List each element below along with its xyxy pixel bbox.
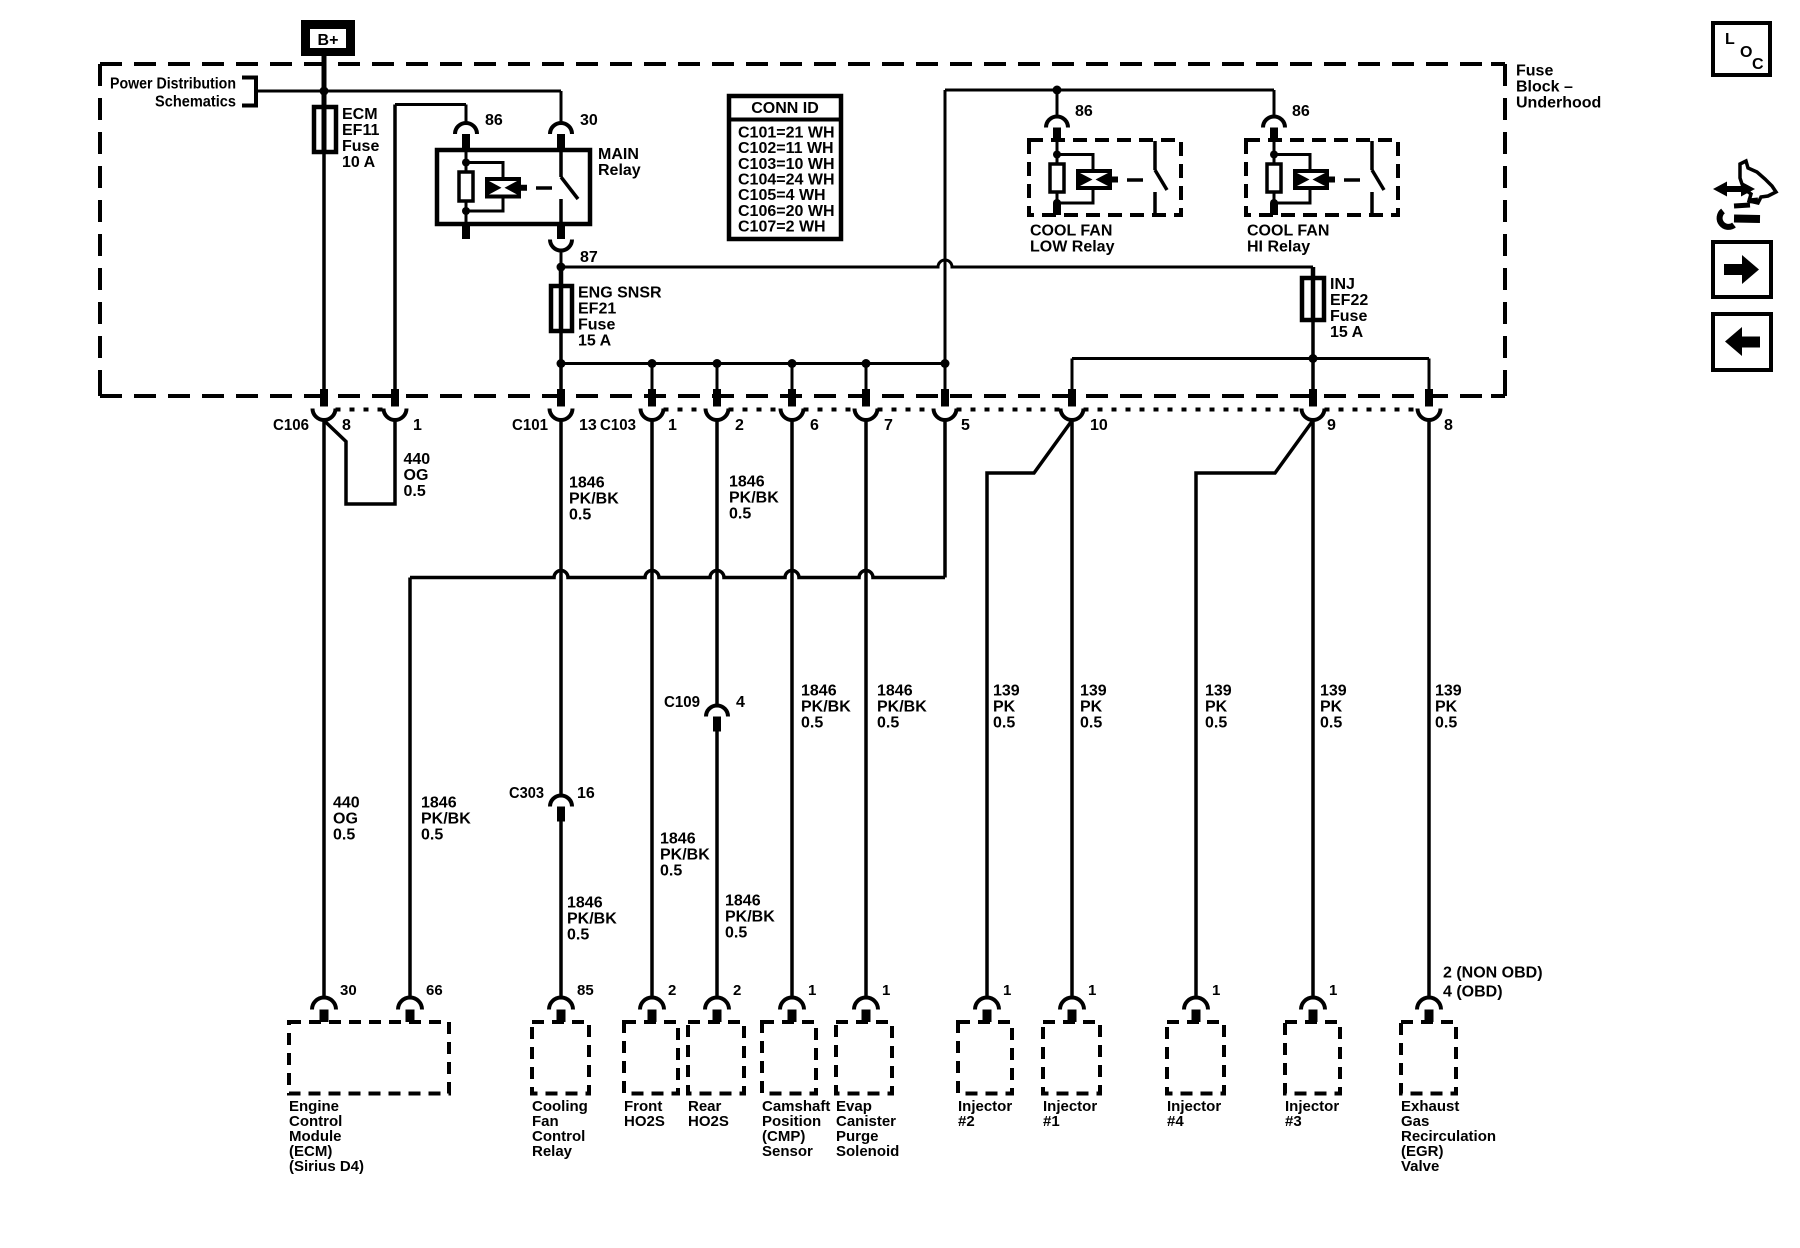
svg-text:8: 8 [1444,417,1453,434]
svg-text:C103: C103 [600,417,636,434]
svg-text:0.5: 0.5 [333,827,355,844]
svg-text:86: 86 [485,112,503,129]
svg-text:0.5: 0.5 [1080,715,1102,732]
svg-text:1: 1 [1212,982,1220,999]
svg-text:Valve: Valve [1401,1158,1439,1175]
svg-text:Fuse: Fuse [1516,63,1553,80]
svg-text:1: 1 [1088,982,1096,999]
svg-text:O: O [1740,44,1752,61]
svg-text:B+: B+ [318,32,339,49]
svg-text:15 A: 15 A [1330,324,1364,341]
svg-text:5: 5 [961,417,970,434]
svg-text:0.5: 0.5 [877,715,899,732]
svg-text:0.5: 0.5 [660,863,682,880]
svg-text:OG: OG [404,467,429,484]
svg-text:C303: C303 [509,785,544,802]
svg-text:1846: 1846 [725,893,761,910]
svg-text:2 (NON OBD): 2 (NON OBD) [1443,965,1543,982]
svg-text:Solenoid: Solenoid [836,1143,899,1160]
svg-text:1846: 1846 [660,831,696,848]
svg-text:C: C [1752,56,1764,73]
svg-text:PK/BK: PK/BK [729,490,779,507]
svg-text:HO2S: HO2S [624,1113,665,1130]
svg-text:4: 4 [736,694,745,711]
svg-text:139: 139 [1080,683,1107,700]
svg-text:C101: C101 [512,417,548,434]
svg-text:16: 16 [577,785,595,802]
svg-text:EF21: EF21 [578,301,616,318]
svg-text:(Sirius D4): (Sirius D4) [289,1158,364,1175]
svg-text:0.5: 0.5 [1435,715,1457,732]
svg-text:15 A: 15 A [578,333,612,350]
svg-text:30: 30 [340,982,357,999]
svg-text:0.5: 0.5 [569,507,591,524]
svg-text:LOW Relay: LOW Relay [1030,239,1115,256]
svg-text:Block –: Block – [1516,79,1573,96]
svg-text:C107=2 WH: C107=2 WH [738,219,826,236]
svg-text:COOL FAN: COOL FAN [1030,223,1112,240]
svg-text:Schematics: Schematics [155,94,236,111]
svg-text:1: 1 [808,982,816,999]
svg-text:PK/BK: PK/BK [421,811,471,828]
svg-text:PK: PK [1205,699,1228,716]
svg-text:2: 2 [735,417,744,434]
svg-text:C106: C106 [273,417,309,434]
svg-text:440: 440 [404,451,431,468]
svg-text:INJ: INJ [1330,276,1355,293]
svg-text:Sensor: Sensor [762,1143,813,1160]
svg-text:0.5: 0.5 [729,506,751,523]
svg-text:PK: PK [1320,699,1343,716]
svg-text:1: 1 [882,982,890,999]
svg-text:87: 87 [580,249,598,266]
svg-text:Relay: Relay [598,162,641,179]
svg-text:#1: #1 [1043,1113,1060,1130]
svg-text:1: 1 [1329,982,1337,999]
svg-text:PK/BK: PK/BK [567,911,617,928]
svg-text:1: 1 [413,417,422,434]
svg-text:30: 30 [580,112,598,129]
svg-text:85: 85 [577,982,594,999]
svg-text:PK/BK: PK/BK [569,491,619,508]
svg-text:0.5: 0.5 [404,483,426,500]
svg-text:#2: #2 [958,1113,975,1130]
svg-text:C109: C109 [664,694,700,711]
svg-text:1846: 1846 [421,795,457,812]
svg-text:PK/BK: PK/BK [877,699,927,716]
svg-text:MAIN: MAIN [598,146,639,163]
svg-text:ENG SNSR: ENG SNSR [578,285,662,302]
svg-text:0.5: 0.5 [1320,715,1342,732]
svg-text:1846: 1846 [729,474,765,491]
svg-text:0.5: 0.5 [725,925,747,942]
svg-text:Power Distribution: Power Distribution [110,76,236,93]
svg-text:139: 139 [1320,683,1347,700]
svg-text:PK/BK: PK/BK [660,847,710,864]
svg-text:139: 139 [1205,683,1232,700]
svg-text:L: L [1725,31,1735,48]
svg-text:EF22: EF22 [1330,292,1368,309]
svg-text:C105=4 WH: C105=4 WH [738,187,826,204]
svg-text:#4: #4 [1167,1113,1184,1130]
svg-text:Fuse: Fuse [342,138,379,155]
svg-text:1846: 1846 [569,475,605,492]
svg-text:C102=11 WH: C102=11 WH [738,140,834,157]
svg-text:86: 86 [1292,103,1310,120]
svg-text:Fuse: Fuse [1330,308,1367,325]
svg-text:7: 7 [884,417,893,434]
svg-text:HO2S: HO2S [688,1113,729,1130]
svg-text:PK/BK: PK/BK [725,909,775,926]
svg-text:0.5: 0.5 [421,827,443,844]
svg-text:COOL FAN: COOL FAN [1247,223,1329,240]
svg-text:1846: 1846 [877,683,913,700]
svg-text:C104=24 WH: C104=24 WH [738,172,835,189]
svg-text:440: 440 [333,795,360,812]
svg-text:C101=21 WH: C101=21 WH [738,124,835,141]
svg-text:10: 10 [1090,417,1108,434]
svg-text:Relay: Relay [532,1143,573,1160]
svg-text:1846: 1846 [567,895,603,912]
svg-text:2: 2 [733,982,741,999]
svg-text:PK: PK [1080,699,1103,716]
svg-text:13: 13 [579,417,597,434]
svg-text:PK: PK [1435,699,1458,716]
svg-text:4 (OBD): 4 (OBD) [1443,984,1503,1001]
svg-text:2: 2 [668,982,676,999]
svg-text:9: 9 [1327,417,1336,434]
svg-text:0.5: 0.5 [801,715,823,732]
svg-text:PK: PK [993,699,1016,716]
svg-text:1846: 1846 [801,683,837,700]
svg-text:Underhood: Underhood [1516,95,1601,112]
svg-text:HI Relay: HI Relay [1247,239,1310,256]
svg-text:1: 1 [668,417,677,434]
svg-text:CONN ID: CONN ID [751,100,819,117]
svg-text:139: 139 [1435,683,1462,700]
svg-text:0.5: 0.5 [993,715,1015,732]
svg-text:0.5: 0.5 [1205,715,1227,732]
svg-text:Fuse: Fuse [578,317,615,334]
svg-text:10 A: 10 A [342,154,376,171]
svg-text:C103=10 WH: C103=10 WH [738,156,835,173]
svg-text:PK/BK: PK/BK [801,699,851,716]
svg-text:0.5: 0.5 [567,927,589,944]
svg-text:ECM: ECM [342,106,378,123]
svg-text:EF11: EF11 [342,122,379,139]
svg-text:6: 6 [810,417,819,434]
svg-text:139: 139 [993,683,1020,700]
svg-text:86: 86 [1075,103,1093,120]
svg-text:#3: #3 [1285,1113,1302,1130]
svg-text:66: 66 [426,982,443,999]
svg-text:8: 8 [342,417,351,434]
svg-text:1: 1 [1003,982,1011,999]
svg-text:C106=20 WH: C106=20 WH [738,203,835,220]
svg-text:OG: OG [333,811,358,828]
